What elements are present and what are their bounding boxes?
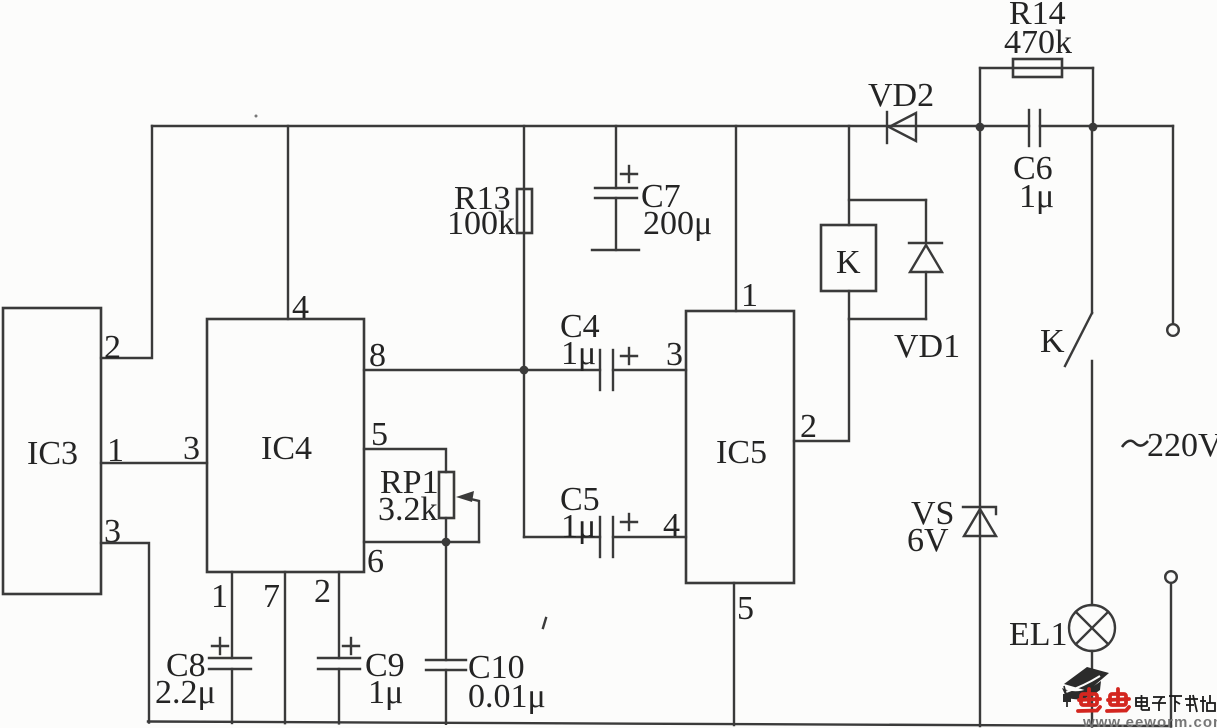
lamp EL1 circle: [1069, 605, 1115, 651]
svg-text:VD1: VD1: [894, 328, 960, 365]
wire C4 to IC5 pin3: [613, 369, 686, 371]
relay K box: [821, 225, 876, 291]
watermark red char chong 1: [1078, 689, 1100, 711]
capacitor C10 plates: [426, 659, 466, 661]
capacitor C8 top lead: [231, 572, 233, 658]
resistor R14 right riser: [1092, 68, 1094, 127]
svg-text:7: 7: [263, 578, 280, 615]
svg-text:2: 2: [104, 329, 121, 366]
wire relay bottom bar: [849, 318, 926, 320]
svg-text:3: 3: [183, 430, 200, 467]
svg-text:220V: 220V: [1147, 427, 1217, 464]
diode VD2 cathode bar: [886, 112, 888, 143]
wire IC4 pin5 to RP1: [364, 449, 446, 472]
wire top bus right segment: [1040, 125, 1173, 127]
lamp EL1 cross: [1076, 612, 1109, 645]
wire to C5: [524, 536, 600, 538]
svg-text:IC3: IC3: [27, 435, 78, 472]
svg-text:K: K: [836, 244, 861, 281]
svg-text:0.01μ: 0.01μ: [468, 678, 546, 715]
svg-text:1μ: 1μ: [1019, 178, 1054, 215]
potentiometer RP1 body: [439, 472, 454, 518]
char zhan: [1202, 696, 1204, 712]
svg-text:3.2k: 3.2k: [378, 491, 438, 528]
svg-text:4: 4: [292, 289, 309, 326]
wire IC4 pin8 to junction: [364, 369, 600, 371]
capacitor C9 plates: [318, 657, 360, 659]
capacitor C10 bottom lead: [445, 670, 447, 724]
svg-text:1μ: 1μ: [368, 674, 403, 711]
capacitor C7 lead: [615, 126, 617, 188]
wire mid drop junction to C5: [523, 370, 525, 537]
svg-text:2: 2: [314, 573, 331, 610]
capacitor C5 plates: [599, 517, 601, 557]
watermark cap white band: [1066, 676, 1100, 692]
wire IC4 pin6: [364, 541, 479, 543]
RP1 wiper arrowhead: [456, 491, 474, 502]
C8 plus sign: [212, 645, 228, 647]
svg-text:5: 5: [371, 416, 388, 453]
wire IC3 pin2 riser: [101, 126, 152, 358]
wire relay top bar: [849, 199, 926, 201]
switch K upper lead: [1091, 127, 1093, 313]
capacitor C6 plates: [1028, 110, 1030, 146]
resistor R14 left riser: [979, 68, 981, 127]
svg-text:3: 3: [666, 336, 683, 373]
capacitor C8 plates: [209, 657, 251, 659]
svg-text:2: 2: [800, 408, 817, 445]
watermark cap brim: [1062, 681, 1101, 699]
char dian: [1136, 698, 1147, 706]
switch K lower lead: [1091, 361, 1093, 605]
svg-text:1: 1: [211, 578, 228, 615]
IC5 U-IC5 box: [686, 311, 794, 583]
svg-text:200μ: 200μ: [643, 205, 712, 242]
wire IC3 pin1 to IC4 pin3: [101, 462, 207, 464]
char zai: [1185, 698, 1198, 700]
C5 plus sign: [621, 521, 637, 523]
capacitor C10 top lead: [445, 542, 447, 660]
C7 plus sign: [621, 173, 637, 175]
svg-text:1μ: 1μ: [561, 335, 596, 372]
char zi: [1153, 696, 1165, 698]
potentiometer RP1 bottom lead: [445, 518, 447, 542]
wire C5 to IC5 pin4: [613, 536, 686, 538]
svg-text:2.2μ: 2.2μ: [155, 674, 216, 711]
resistor R14 top wire: [980, 67, 1093, 69]
wire relay branch drop from bus: [848, 126, 850, 225]
diode VD1 triangle: [910, 245, 942, 272]
diode VD1 cathode bar: [909, 242, 942, 244]
resistor R13 body: [517, 189, 532, 233]
stray scan dot: [255, 115, 258, 118]
svg-text:IC4: IC4: [261, 430, 312, 467]
svg-text:6V: 6V: [907, 522, 949, 559]
wire lamp to bottom bus: [1091, 651, 1093, 727]
svg-text:470k: 470k: [1004, 24, 1072, 61]
resistor R14 body: [1013, 59, 1062, 77]
node junction bus right of C6: [1089, 123, 1098, 132]
zener VS triangle: [964, 509, 996, 536]
char xia: [1169, 695, 1182, 697]
svg-text:www.eeworm.com: www.eeworm.com: [1082, 714, 1217, 728]
capacitor C8 bottom lead: [231, 669, 233, 723]
wire IC4 pin7 to bottom bus: [284, 572, 286, 723]
wire lower terminal to bottom bus: [1170, 584, 1172, 727]
diode VD1 top lead: [925, 200, 927, 243]
svg-text:K: K: [1040, 323, 1065, 360]
wire IC5 pin2 to relay branch: [794, 319, 849, 441]
capacitor C7 plates: [595, 187, 637, 189]
zener VS cathode bar: [963, 507, 996, 514]
capacitor C9 top lead: [338, 572, 340, 658]
svg-text:EL1: EL1: [1009, 616, 1068, 653]
capacitor C4 plates: [599, 350, 601, 390]
watermark cap tassel: [1064, 686, 1066, 694]
node junction pin8/R13: [520, 366, 529, 375]
watermark red char chong 2: [1107, 689, 1129, 711]
wire relay K bottom stub: [848, 291, 850, 319]
IC4 U-IC4 box: [207, 319, 364, 572]
IC3 U-IC3 box: [3, 308, 101, 594]
svg-text:5: 5: [737, 590, 754, 627]
C4 plus sign: [621, 355, 637, 357]
wire IC5 pin1 riser: [735, 126, 737, 311]
stray scan tick: [543, 618, 546, 628]
resistor R13 lead: [523, 126, 525, 370]
capacitor C9 bottom lead: [338, 669, 340, 723]
capacitor C7 lower lead and end bar: [615, 198, 617, 250]
svg-text:1μ: 1μ: [561, 508, 596, 545]
switch K blade: [1065, 313, 1092, 366]
svg-text:4: 4: [663, 507, 680, 544]
svg-text:100k: 100k: [447, 205, 515, 242]
watermark chinese text dian zi xia zai zhan: [1136, 695, 1215, 712]
wire right bus end drop: [1172, 126, 1174, 323]
diode VD1 bottom lead: [925, 272, 927, 319]
diode VD2 triangle: [889, 113, 916, 141]
terminal lower 220V: [1165, 571, 1177, 583]
svg-text:3: 3: [104, 513, 121, 550]
~220V label tilde: [1122, 441, 1148, 447]
watermark graduation cap board: [1064, 667, 1109, 691]
svg-text:1: 1: [741, 277, 758, 314]
wire IC4 pin4 riser: [287, 126, 289, 319]
node junction bus left of C6: [976, 123, 985, 132]
terminal upper 220V: [1167, 324, 1179, 336]
wire top bus left segment: [152, 125, 1029, 127]
svg-text:6: 6: [367, 543, 384, 580]
RP1 wiper arm: [462, 497, 479, 542]
svg-text:IC5: IC5: [716, 434, 767, 471]
wire bottom bus: [148, 722, 1171, 727]
svg-text:VD2: VD2: [868, 77, 934, 114]
node junction RP1/C10: [442, 538, 451, 547]
wire IC5 pin5 down to bottom bus: [733, 583, 735, 725]
wire VS branch drop: [979, 127, 981, 726]
svg-text:8: 8: [369, 337, 386, 374]
C9 plus sign: [343, 645, 359, 647]
wire IC3 pin3 down to bottom bus: [101, 543, 149, 723]
